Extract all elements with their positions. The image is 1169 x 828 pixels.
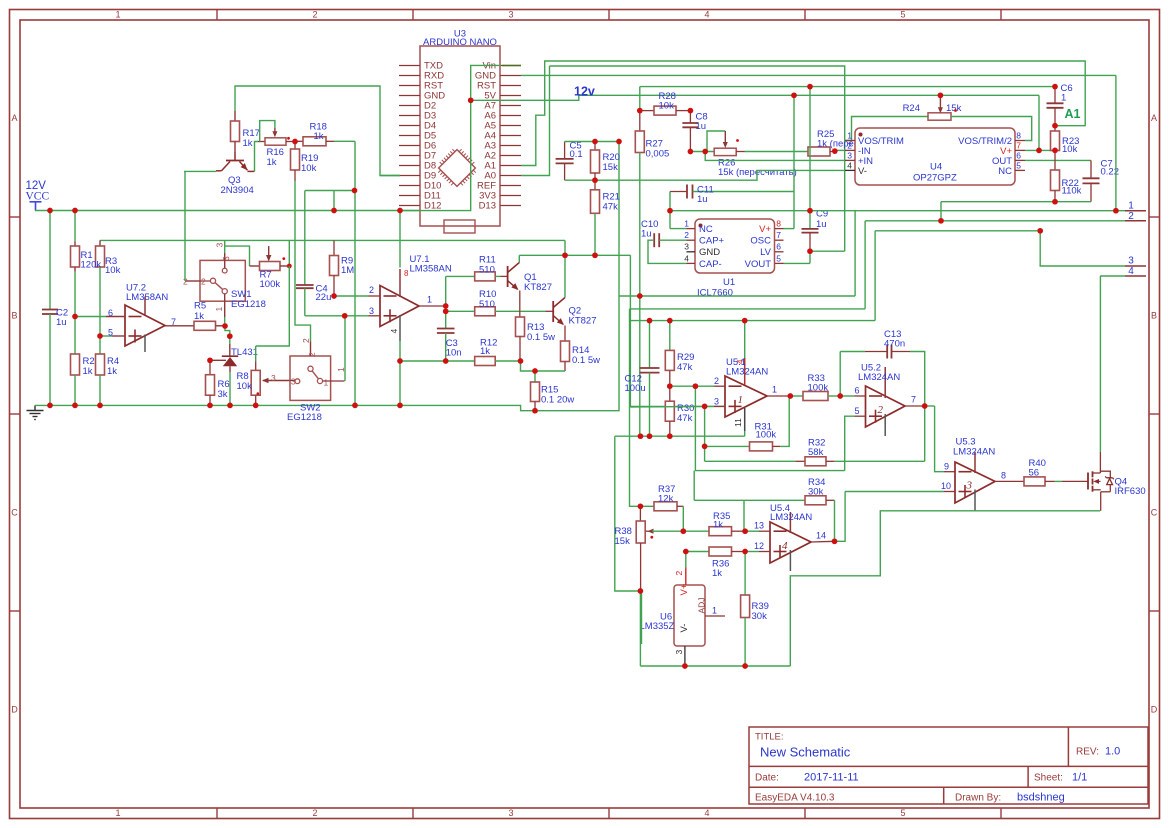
ground symbol (27, 405, 44, 419)
svg-text:5: 5 (854, 406, 859, 416)
svg-text:V-: V- (679, 624, 690, 633)
wire SW1 pin3 loop (225, 240, 250, 266)
switch SW2 (271, 338, 346, 423)
svg-text:8: 8 (404, 269, 409, 278)
resistor R25 (745, 129, 891, 156)
svg-text:3: 3 (369, 306, 374, 316)
wire U5.1 pin3 (630, 405, 725, 408)
svg-text:5: 5 (776, 253, 781, 263)
svg-text:KT827: KT827 (524, 282, 552, 293)
resistor R34 (694, 477, 834, 505)
svg-text:2: 2 (312, 10, 317, 20)
resistor R21 (591, 180, 620, 255)
svg-text:7: 7 (911, 395, 916, 405)
svg-text:OP27GPZ: OP27GPZ (913, 173, 957, 184)
wire x941 drop (940, 202, 942, 221)
wire R18 right down (354, 141, 356, 405)
svg-text:3k: 3k (218, 389, 228, 400)
wire V+ line (1025, 149, 1055, 151)
svg-text:12: 12 (754, 541, 764, 551)
svg-text:EG1218: EG1218 (231, 299, 266, 310)
svg-text:R5: R5 (194, 301, 206, 312)
svg-text:ARDUINO NANO: ARDUINO NANO (423, 37, 497, 48)
wire C7 bottom line (941, 201, 1091, 203)
wire rail y321 (630, 320, 876, 322)
svg-text:1: 1 (712, 606, 717, 616)
svg-text:New Schematic: New Schematic (760, 745, 851, 760)
wire bottom bus (640, 665, 790, 667)
svg-text:1/1: 1/1 (1072, 772, 1087, 784)
capacitor C4 (296, 284, 331, 316)
svg-text:2N3904: 2N3904 (221, 185, 254, 196)
svg-text:1.0: 1.0 (1105, 746, 1120, 758)
svg-text:100k: 100k (756, 429, 777, 440)
svg-text:30k: 30k (808, 487, 824, 498)
svg-text:10n: 10n (446, 348, 462, 359)
svg-text:6: 6 (776, 242, 781, 252)
wire Q4 source (1100, 492, 1102, 511)
wire U5.4 pin12 (745, 551, 770, 553)
capacitor C3 (437, 329, 462, 362)
svg-text:1: 1 (214, 307, 224, 312)
svg-text:EG1218: EG1218 (287, 412, 322, 423)
wire x865 drop (864, 221, 866, 309)
resistor R10 (446, 289, 554, 316)
wire x630 collector drop (630, 255, 725, 406)
wire x305 down to C4 (304, 191, 306, 286)
capacitor C2 (42, 211, 68, 405)
potentiometer R8 (237, 370, 291, 405)
svg-text:2: 2 (201, 277, 206, 287)
svg-text:5: 5 (1016, 160, 1021, 170)
svg-text:C: C (11, 508, 18, 518)
svg-text:30k: 30k (752, 611, 768, 622)
resistor R29 (665, 321, 694, 387)
wire rail y309 (630, 308, 866, 310)
svg-text:ICL7660: ICL7660 (697, 288, 733, 299)
svg-text:Sheet:: Sheet: (1034, 773, 1063, 784)
resistor R37 (640, 484, 683, 511)
svg-text:U4: U4 (930, 162, 942, 173)
potentiometer R7 (250, 246, 288, 290)
wire SW1 pin2 from Q3 (184, 171, 186, 281)
label U5.3 pin9 (944, 462, 949, 472)
svg-text:510: 510 (479, 265, 495, 276)
wire U1 pin8 V+ (784, 95, 795, 228)
wire U5.4 pin13 (745, 530, 770, 532)
svg-text:9: 9 (944, 462, 949, 472)
svg-text:3: 3 (714, 397, 719, 407)
capacitor C10 (641, 219, 687, 263)
svg-text:3: 3 (674, 650, 684, 655)
wire VOUT net (784, 251, 845, 263)
svg-text:4: 4 (736, 359, 745, 364)
wire x639 drop (641, 591, 643, 644)
svg-text:1u: 1u (696, 121, 707, 132)
capacitor C7 (1083, 158, 1120, 201)
label R18 value (0, 0, 1, 1)
svg-text:14: 14 (816, 531, 826, 541)
svg-text:NC: NC (998, 166, 1012, 177)
label U5.2 pin5 (854, 406, 859, 416)
resistor R35 (652, 511, 745, 536)
wire Q3 emitter (255, 142, 259, 172)
svg-text:2: 2 (674, 571, 684, 576)
svg-text:V+: V+ (679, 583, 690, 595)
wire SW2 pin1 up (344, 316, 346, 381)
wire C5 top (565, 141, 619, 143)
svg-text:1k: 1k (107, 366, 117, 377)
resistor R40 (1024, 458, 1088, 486)
svg-text:1: 1 (738, 394, 744, 406)
svg-text:1u: 1u (816, 219, 827, 230)
svg-text:TL431: TL431 (231, 347, 258, 358)
svg-text:2: 2 (369, 285, 374, 295)
wire U3 D9 (380, 175, 400, 177)
wire +IN sense (705, 152, 845, 161)
svg-text:10k: 10k (105, 265, 121, 276)
wire x875 drop (874, 231, 876, 321)
label pin5 (108, 328, 113, 338)
svg-text:KT827: KT827 (569, 316, 597, 327)
svg-text:10k: 10k (1062, 144, 1078, 155)
label U7.1 pin2 (369, 285, 374, 295)
wire U5.4 out (811, 540, 835, 543)
svg-text:ADJ: ADJ (697, 597, 707, 613)
svg-text:510: 510 (479, 299, 495, 310)
svg-text:0,005: 0,005 (646, 149, 670, 160)
switch SW1 (183, 243, 266, 324)
resistor R33 (790, 373, 840, 401)
resistor R1 (71, 211, 80, 317)
resistor R2 (71, 317, 95, 406)
junction R7 right (287, 264, 292, 269)
svg-text:1: 1 (115, 808, 120, 818)
wire Q1 emitter down (519, 291, 521, 318)
svg-text:CAP-: CAP- (699, 259, 722, 270)
svg-text:10k: 10k (301, 163, 317, 174)
svg-text:22u: 22u (316, 292, 332, 303)
svg-text:CAP+: CAP+ (699, 236, 725, 247)
svg-text:2017-11-11: 2017-11-11 (804, 772, 859, 784)
svg-text:A1: A1 (1065, 107, 1081, 121)
wire R5 to TL431 jog (225, 326, 230, 336)
wire U3 5V 12v (471, 95, 1039, 100)
svg-text:3: 3 (221, 256, 231, 261)
svg-text:3: 3 (271, 373, 276, 383)
wire R34 out link (834, 500, 836, 541)
svg-text:1: 1 (324, 378, 329, 388)
svg-text:10k: 10k (659, 101, 675, 112)
svg-text:10: 10 (941, 481, 951, 491)
wire y86 net (640, 86, 1055, 88)
wire out to U5.3 pin10 (835, 492, 846, 542)
svg-text:2: 2 (714, 376, 719, 386)
svg-text:3: 3 (508, 10, 513, 20)
potentiometer R24 (845, 95, 1032, 140)
wire rail 240 drop (564, 240, 566, 255)
svg-text:1: 1 (115, 10, 120, 20)
svg-text:110k: 110k (1062, 186, 1082, 197)
wire U3 Vin inner (400, 65, 501, 267)
resistor R36 (686, 547, 745, 579)
wire x1039 V+ drop (1038, 95, 1040, 150)
svg-text:12v: 12v (574, 85, 595, 99)
svg-text:2: 2 (312, 808, 317, 818)
resistor R15 (531, 371, 575, 411)
resistor R20 (591, 142, 620, 181)
svg-text:0.1 5w: 0.1 5w (527, 332, 555, 343)
wire pin13 feedback (743, 500, 745, 531)
wire C8 to R26 (690, 151, 714, 153)
svg-text:LM335Z: LM335Z (640, 621, 675, 632)
capacitor C12 (625, 321, 660, 437)
label pin7 (171, 317, 176, 327)
wire x614 drop (615, 436, 641, 591)
svg-text:15k: 15k (603, 162, 619, 173)
wire x629 rail drop (630, 309, 641, 506)
svg-text:47k: 47k (677, 362, 693, 373)
wire Q2 emitter (564, 326, 566, 342)
wire Q4 drain (1099, 276, 1101, 471)
label U5.2 pin6 (854, 386, 859, 396)
svg-text:IRF630: IRF630 (1115, 486, 1146, 497)
label U5.1 pin3 (714, 397, 719, 407)
wire SW1 pin3 top (224, 246, 226, 253)
wire x855 drop (854, 211, 856, 296)
svg-text:LM324AN: LM324AN (726, 367, 768, 378)
resistor R39 (741, 552, 769, 667)
wire ground rail (35, 142, 619, 411)
svg-text:3: 3 (291, 377, 296, 387)
wire U7.2 pin6 (75, 316, 125, 318)
transistor Q2 (553, 298, 596, 328)
wire pin3 branch (704, 406, 706, 461)
label 12v (574, 85, 595, 99)
wire U7.1 pin3 (305, 315, 380, 317)
svg-text:1: 1 (772, 385, 777, 395)
svg-text:B: B (11, 311, 17, 321)
capacitor C9 (802, 86, 829, 251)
svg-text:1k: 1k (314, 131, 324, 142)
resistor R11 (446, 255, 508, 281)
wire U3 A1 net (521, 61, 1085, 166)
svg-text:10k: 10k (237, 381, 253, 392)
transistor Q3 (216, 152, 255, 196)
svg-text:11: 11 (733, 418, 743, 427)
svg-text:47k: 47k (677, 413, 693, 424)
wire R7 right to rail (288, 240, 290, 266)
resistor R32 (705, 438, 925, 466)
resistor R4 (96, 336, 120, 405)
svg-text:56: 56 (1029, 468, 1040, 479)
capacitor C5 (556, 141, 583, 181)
wire y66 net (550, 66, 845, 251)
wire x640 drop (639, 296, 641, 436)
svg-text:LM324AN: LM324AN (858, 372, 900, 383)
wire x694 up (693, 471, 695, 501)
wire U7.1 pin2 (334, 295, 380, 297)
resistor R12 (400, 338, 521, 366)
capacitor C8 (682, 111, 707, 152)
wire U7.1 out (419, 305, 446, 307)
svg-text:7: 7 (776, 230, 781, 240)
wire rail y296 (619, 295, 855, 297)
svg-text:8: 8 (1001, 471, 1006, 481)
svg-text:D: D (1151, 705, 1158, 715)
svg-text:1M: 1M (341, 265, 354, 276)
svg-text:OSC: OSC (750, 236, 771, 247)
net port 4 (1125, 266, 1146, 277)
wire x1115 gnd drop (1115, 75, 1117, 210)
svg-text:0.1: 0.1 (570, 149, 583, 160)
potentiometer R26 (707, 131, 797, 178)
svg-text:D: D (11, 705, 18, 715)
svg-text:100u: 100u (625, 383, 646, 394)
svg-text:1k: 1k (243, 138, 253, 149)
svg-text:Drawn By:: Drawn By: (955, 793, 1001, 804)
svg-text:1: 1 (1061, 93, 1066, 104)
svg-text:C: C (1151, 508, 1158, 518)
label U5.2 pin7 (911, 395, 916, 405)
resistor R17 (231, 111, 260, 152)
svg-text:LM324AN: LM324AN (953, 447, 995, 458)
wire U3 GND long (521, 74, 1116, 76)
op-amp U5.3 (953, 437, 995, 512)
svg-text:REV:: REV: (1076, 747, 1099, 758)
svg-text:2: 2 (307, 352, 317, 357)
IC U1 ICL7660 (684, 219, 783, 299)
wire U5.2 out (905, 405, 935, 407)
wire port2 line (865, 220, 1125, 222)
wire R16 wiper loop (260, 121, 275, 142)
wire U7.2 pin5 (100, 335, 125, 337)
resistor R5 (165, 301, 223, 331)
svg-text:4: 4 (1128, 266, 1134, 277)
wire U1 pin1 net (670, 192, 687, 229)
label pin6 (108, 308, 113, 318)
svg-text:4: 4 (684, 253, 689, 263)
wire R38 bottom drop (639, 591, 641, 666)
op-amp U7.1 (380, 254, 452, 341)
IC U3 ARDUINO NANO (399, 29, 521, 234)
svg-text:3: 3 (684, 242, 689, 252)
R7 star (282, 257, 285, 260)
net label A1 (1065, 107, 1081, 121)
op-amp U5.2 (858, 363, 905, 437)
svg-text:3: 3 (508, 808, 513, 818)
resistor R6 (206, 360, 230, 405)
wire Q1 collector (518, 255, 520, 262)
svg-text:5: 5 (108, 328, 113, 338)
svg-text:2: 2 (1128, 211, 1134, 222)
svg-text:EasyEDA V4.10.3: EasyEDA V4.10.3 (755, 793, 835, 804)
svg-text:VOUT: VOUT (745, 259, 772, 270)
resistor R13 (516, 317, 556, 361)
svg-text:4: 4 (704, 808, 709, 818)
wire U5.3 pin10 (845, 491, 955, 493)
wire pin5 to divider (695, 386, 844, 470)
svg-text:2: 2 (847, 140, 852, 150)
title block (749, 727, 1148, 804)
op-amp U5.1 (725, 321, 768, 437)
wire VCC rail y210 (35, 210, 419, 212)
wire C5 bottom (565, 179, 595, 181)
svg-text:8: 8 (776, 219, 781, 229)
op-amp U5.4 (770, 503, 812, 571)
wire port1 line (670, 210, 1125, 212)
svg-text:NC: NC (699, 224, 713, 235)
label U5.3 pin10 (941, 481, 951, 491)
svg-text:6: 6 (854, 386, 859, 396)
wire out node vertical (445, 276, 447, 328)
svg-text:2: 2 (684, 230, 689, 240)
label R28 value (0, 0, 1, 1)
TL431 (210, 336, 258, 405)
svg-text:R24: R24 (903, 103, 920, 114)
wire OUT line (1025, 159, 1091, 161)
resistor R14 (561, 341, 601, 371)
wire collector line (519, 254, 630, 256)
net flag 12V VCC (26, 180, 50, 211)
wire bus y436 (615, 435, 745, 437)
label U5.4 pin12 (754, 541, 764, 551)
svg-text:6: 6 (1016, 150, 1021, 160)
wire U5.1 pin2 (670, 385, 725, 387)
wire port4 line (1100, 275, 1125, 277)
svg-text:100k: 100k (260, 279, 281, 290)
capacitor C11 (670, 185, 794, 206)
svg-text:V-: V- (858, 166, 867, 177)
wire Q3 base left (184, 170, 216, 172)
svg-text:0.1 20w: 0.1 20w (541, 395, 574, 406)
wire Q2 collector (564, 255, 566, 297)
wire U5.1 out (767, 395, 790, 397)
resistor R19 (291, 142, 319, 182)
wire source return (790, 511, 1100, 666)
svg-text:8: 8 (1016, 130, 1021, 140)
wire U6 pin2 up (685, 552, 687, 568)
svg-text:Date:: Date: (755, 773, 779, 784)
transistor Q4 IRF630 (1088, 471, 1146, 497)
wire U3 A0 (521, 66, 550, 176)
svg-text:A: A (1151, 113, 1157, 123)
svg-text:VCC: VCC (26, 191, 50, 203)
wire U7.1 pwr gnd (399, 341, 401, 405)
svg-text:D13: D13 (479, 201, 496, 212)
svg-text:5: 5 (900, 808, 905, 818)
wire rail y240 (100, 239, 565, 241)
svg-text:470n: 470n (884, 339, 905, 350)
svg-text:1k: 1k (83, 366, 93, 377)
svg-text:TITLE:: TITLE: (755, 732, 784, 743)
svg-text:LM358AN: LM358AN (410, 264, 452, 275)
wire out to pin9 (935, 406, 955, 472)
resistor R18 (295, 122, 355, 146)
R16 star (287, 137, 290, 140)
svg-text:13: 13 (754, 521, 764, 531)
label U5.4 pin13 (754, 521, 764, 531)
wire U5.3 out (995, 480, 1024, 482)
svg-text:LV: LV (760, 247, 772, 258)
capacitor C6 (1047, 83, 1073, 126)
svg-text:A: A (11, 113, 17, 123)
wire R32 feedback drop (924, 406, 926, 461)
svg-text:1u: 1u (641, 229, 652, 240)
svg-text:B: B (1151, 311, 1157, 321)
label U5.1 pin1 (772, 385, 777, 395)
svg-text:1k: 1k (194, 311, 204, 322)
